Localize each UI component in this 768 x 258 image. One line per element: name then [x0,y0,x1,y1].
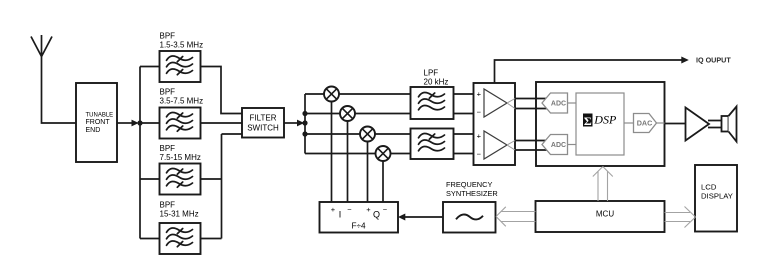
svg-text:1.5-3.5 MHz: 1.5-3.5 MHz [160,41,204,50]
svg-text:BPF: BPF [160,201,176,210]
svg-text:ADC: ADC [551,101,566,108]
svg-text:DAC: DAC [637,119,653,128]
svg-text:+: + [477,90,482,99]
svg-text:DSP: DSP [593,112,617,126]
svg-text:BPF: BPF [160,144,176,153]
svg-text:15-31 MHz: 15-31 MHz [160,210,199,219]
svg-text:MCU: MCU [596,210,614,219]
svg-text:Σ: Σ [584,114,592,128]
svg-text:7.5-15 MHz: 7.5-15 MHz [160,153,201,162]
svg-text:BPF: BPF [160,32,176,41]
svg-text:+: + [331,205,336,214]
svg-text:−: − [383,205,388,214]
svg-text:3.5-7.5 MHz: 3.5-7.5 MHz [160,97,204,106]
svg-text:BPF: BPF [160,88,176,97]
svg-text:I: I [339,210,342,220]
svg-text:F÷4: F÷4 [351,222,365,231]
svg-text:LCD: LCD [701,182,717,191]
svg-text:SYNTHESIZER: SYNTHESIZER [446,189,498,198]
svg-text:TUNABLE: TUNABLE [86,112,114,118]
svg-text:−: − [347,205,352,214]
svg-text:DISPLAY: DISPLAY [701,192,733,201]
svg-text:Q: Q [373,210,380,220]
svg-text:−: − [477,150,482,159]
svg-text:END: END [86,127,101,134]
svg-text:IQ OUPUT: IQ OUPUT [696,55,731,64]
svg-text:20 kHz: 20 kHz [424,78,449,87]
svg-text:SWITCH: SWITCH [247,124,279,133]
svg-text:LPF: LPF [424,69,439,78]
svg-text:+: + [477,132,482,141]
svg-text:FRONT: FRONT [86,119,111,126]
svg-text:FREQUENCY: FREQUENCY [446,180,492,189]
svg-text:+: + [366,205,371,214]
svg-text:ADC: ADC [551,142,566,149]
svg-text:−: − [477,108,482,117]
svg-text:FILTER: FILTER [250,114,277,123]
